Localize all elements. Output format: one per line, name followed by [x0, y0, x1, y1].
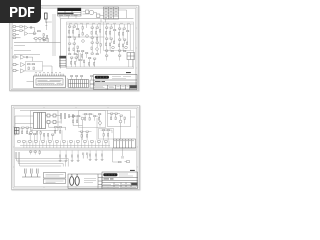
driver transistor Q10 [81, 117, 84, 120]
title cell dashes [95, 86, 129, 88]
wire bundle line 4 [19, 152, 61, 166]
transistor Q1 [85, 35, 88, 38]
mid wires [92, 24, 100, 54]
filter capacitor C21 [30, 168, 32, 177]
op-amp U2A [20, 55, 24, 59]
resistor R2 [19, 30, 22, 31]
vertical feed wires pair [53, 14, 55, 56]
diode D10 [47, 114, 50, 117]
regulator C12 [54, 130, 55, 133]
pre-band parts row [29, 133, 54, 136]
bias cap C14 [21, 131, 22, 134]
output connector block [113, 139, 135, 148]
bias cap C15 [26, 131, 27, 134]
cluster above caps [29, 151, 40, 154]
schematic page 1 [9, 5, 139, 91]
oscillator wires [107, 113, 135, 126]
single cap C39 [86, 152, 87, 158]
frame ticks 2 [13, 107, 138, 188]
osc output enclosure [98, 128, 113, 139]
ground symbols B [88, 159, 103, 160]
transformer T1 block [103, 7, 118, 19]
tone wires [33, 39, 49, 43]
frame outer 2 [13, 107, 138, 188]
diode D13 [53, 120, 56, 123]
sheet text line [94, 87, 114, 89]
psu chain wires [37, 130, 41, 140]
band buses [15, 148, 136, 150]
mid stage parts [91, 27, 101, 55]
block output wires [105, 10, 126, 23]
diode D11 [47, 120, 50, 123]
input jack J1 [13, 26, 19, 28]
driver wires [66, 24, 133, 54]
wire bundle line 2 [16, 152, 65, 167]
primary wire top [15, 115, 34, 117]
power amp module U3 [33, 76, 65, 88]
transistor Q2 [81, 40, 84, 43]
bias wires 2 [78, 131, 91, 140]
mains wires [82, 12, 89, 15]
cluster above caps wires [30, 150, 39, 155]
schematic page 2 [11, 105, 140, 190]
predriver parts [84, 113, 100, 120]
decoupling cap C33 [77, 154, 78, 160]
stamp digit 0 right [75, 176, 79, 185]
amp input wire [26, 66, 66, 82]
psu enclosure box [30, 110, 58, 130]
input jack J3b [13, 37, 21, 39]
feedback parts [77, 51, 88, 58]
jack J6 [13, 70, 19, 72]
decoupling cap C34 [89, 153, 90, 159]
tone network row [34, 38, 45, 39]
speaker connector table [68, 80, 88, 88]
frame inner 2 [14, 108, 136, 186]
pre-band wires [30, 134, 53, 140]
psu chain below [36, 131, 41, 134]
approval stamp box [68, 174, 102, 189]
mid-left parts [72, 115, 79, 122]
bias wires [19, 127, 32, 131]
fuse F1 [85, 10, 88, 13]
bottom rail wires [66, 53, 133, 67]
predriver wires [82, 114, 100, 126]
transistor Q3 [95, 48, 98, 51]
jack J4 [13, 56, 19, 58]
U3 label lines [37, 78, 62, 85]
out jack J10 [124, 160, 129, 162]
filter cap C10 [60, 113, 61, 124]
output stage parts [105, 27, 128, 56]
rail caps [68, 114, 73, 118]
decoupling cap C30 [59, 154, 60, 160]
oscillator box [107, 110, 130, 126]
top supply bus [60, 18, 133, 20]
bias resistor R23 [26, 127, 29, 128]
speaker wire drops [71, 77, 91, 80]
secondary wires [93, 13, 103, 23]
header dark cell [59, 56, 66, 58]
decoupling cap C35 [95, 153, 96, 159]
filter capacitor C20 [24, 168, 26, 177]
band drops [23, 140, 108, 148]
U3 pins [35, 74, 64, 76]
feedback wires [78, 52, 87, 61]
drop cluster parts [43, 34, 48, 41]
mid bus wire [66, 36, 104, 38]
model text [95, 80, 105, 82]
drawing frame outer [11, 7, 137, 90]
decoupling cap C36 [101, 153, 102, 159]
tone bus [14, 42, 61, 44]
input jack J2 [13, 30, 19, 32]
bridge rectifier D1 [96, 14, 99, 17]
title2 text lines [119, 174, 133, 176]
out resistor R30 [118, 161, 121, 162]
jack J5 [13, 64, 19, 66]
title2 cell dashes [103, 184, 136, 187]
power table [57, 8, 81, 16]
terminal text lines [45, 174, 63, 182]
resistor R1 [19, 26, 22, 27]
reverb box [25, 62, 42, 72]
op-amp U2B [20, 63, 24, 67]
PDF badge [0, 0, 41, 23]
resistor R3 [33, 32, 34, 35]
capacitor C1 [30, 26, 31, 29]
main amp enclosure [66, 22, 133, 69]
preamp wires [22, 27, 36, 34]
op-amp U1B [24, 32, 27, 36]
input jack J3 [13, 34, 19, 36]
send wire [14, 50, 31, 52]
left header table [59, 56, 66, 67]
filter cap C11 [64, 113, 65, 119]
cap bus leads [60, 150, 102, 154]
decoupling cap C32 [71, 154, 72, 160]
primary drop [14, 116, 16, 136]
link wires to band [62, 118, 121, 140]
relay drop wires [128, 60, 132, 68]
title block 2 [102, 172, 138, 189]
power table header [57, 8, 81, 11]
thermistor TH1 [29, 131, 32, 134]
aux terminal boxes [90, 80, 94, 88]
mixer wires [24, 57, 32, 61]
op-amp U2C [20, 69, 24, 73]
bottom rail parts [70, 57, 95, 65]
resistor R4 [37, 31, 40, 32]
regulator C13 [59, 130, 60, 133]
predriver enclosure [78, 110, 105, 127]
pin labels above IC [35, 72, 61, 74]
out cap C37 [121, 156, 122, 159]
regulator wires [48, 123, 65, 130]
fuse drop wire [45, 19, 47, 30]
drop cluster wires [43, 36, 47, 42]
stamp digit 0 left [69, 176, 73, 185]
diode D12 [53, 114, 56, 117]
frame zone ticks [11, 7, 137, 89]
primary wire bottom [15, 122, 34, 124]
speaker out wire [112, 148, 122, 162]
power table dark row [57, 13, 73, 14]
regulator R20 [54, 126, 57, 127]
transformer T2 [33, 112, 45, 128]
predriver transistor Q12 [98, 121, 101, 124]
op-amp U1A [24, 26, 27, 30]
transistor Q4 [111, 46, 114, 49]
band component row [17, 140, 107, 141]
reverb parts [27, 64, 34, 70]
terminal strip upper [43, 172, 65, 178]
bridge wires [45, 115, 60, 122]
top rail wire [20, 109, 108, 111]
sub-box divider [103, 22, 133, 51]
output wires [106, 24, 130, 61]
label PL8 page2 [130, 169, 135, 171]
drawing frame inner [12, 8, 135, 88]
relay output box [127, 53, 135, 60]
bias parts 2 [80, 131, 88, 137]
transistor Q5 [124, 46, 127, 49]
title text lines [112, 77, 131, 79]
osc output parts [102, 129, 109, 136]
rev cell dark 2 [131, 182, 137, 184]
label PL8 [126, 72, 131, 74]
mains terminal block [14, 127, 19, 134]
stamp text lines [84, 178, 96, 182]
speaker wiring parts [70, 76, 92, 77]
oscillator transistor Q11 [119, 120, 122, 123]
oscillator parts [110, 113, 125, 120]
rev cell dark [129, 85, 136, 88]
reverb out wire [42, 66, 52, 74]
osc output wires [100, 130, 112, 140]
mixer cap [26, 56, 27, 58]
stamp dots [70, 174, 77, 176]
Kustom logo 2 [103, 173, 117, 176]
wire bundle line 1 [15, 152, 68, 167]
aux wire [14, 45, 25, 47]
fuse part under badge [44, 13, 47, 19]
ground symbols A [58, 160, 79, 161]
driver stage parts [68, 26, 83, 55]
ground bar [22, 176, 41, 178]
title block [93, 75, 137, 90]
mixer bus [14, 54, 40, 56]
single cap C38 [82, 152, 83, 158]
wire from fuse [45, 19, 51, 22]
AC inlet circle [89, 10, 94, 15]
bias resistor R22 [21, 127, 24, 128]
model text 2 [103, 177, 113, 179]
terminal strip lower [43, 179, 65, 184]
filter capacitor C22 [36, 168, 38, 177]
left vertical bus [59, 19, 61, 69]
separator column [66, 78, 68, 88]
regulator R21 [59, 126, 62, 127]
Kustom logo [94, 76, 108, 79]
mid-left wires [68, 116, 82, 125]
box header dashes [69, 22, 130, 24]
decoupling cap C31 [65, 154, 66, 160]
wire bundle line 3 [18, 152, 63, 167]
